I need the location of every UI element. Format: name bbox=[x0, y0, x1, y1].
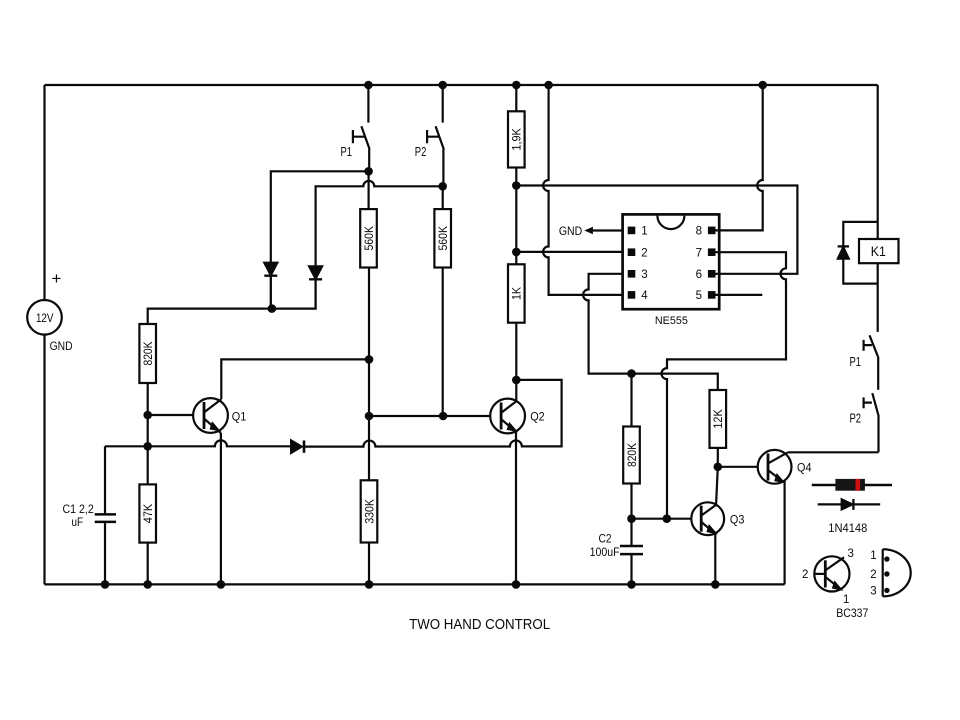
pin 3 pad bbox=[628, 270, 636, 278]
wire 330K bottom to ground rail bbox=[368, 543, 370, 585]
node 820K-Q1 base bbox=[143, 411, 152, 420]
svg-text:BC337: BC337 bbox=[836, 608, 868, 620]
wire relay diode branch bottom bbox=[843, 259, 877, 284]
wire Q3 base bbox=[632, 518, 692, 520]
resistor 12K bbox=[710, 390, 727, 448]
svg-text:1: 1 bbox=[641, 226, 647, 238]
node rail-pin4 bbox=[544, 81, 553, 90]
wire P2 node to diode D2 branch with hop over P1 vertical bbox=[316, 181, 443, 266]
node 12K-Q4 base bbox=[714, 463, 723, 472]
svg-text:C2: C2 bbox=[599, 533, 612, 545]
wire 1K top node to resistor bbox=[515, 252, 517, 264]
node 560K P2-Q2 base bbox=[439, 412, 448, 421]
diode D3 bbox=[291, 440, 302, 453]
resistor 820K (left) bbox=[139, 324, 156, 383]
svg-text:6: 6 bbox=[696, 269, 702, 281]
svg-text:12V: 12V bbox=[36, 313, 54, 325]
wire pin 2 to 1K top node bbox=[516, 251, 622, 253]
wire supply rail down to 1,9K bbox=[515, 85, 517, 111]
resistor 560K (P1) bbox=[360, 209, 377, 267]
wire relay diode branch top bbox=[843, 222, 877, 247]
svg-text:7: 7 bbox=[696, 247, 702, 259]
svg-text:Q1: Q1 bbox=[232, 409, 247, 423]
svg-text:820K: 820K bbox=[141, 342, 155, 366]
node rail-pin8 bbox=[758, 81, 767, 90]
svg-text:3: 3 bbox=[641, 269, 647, 281]
svg-text:GND: GND bbox=[50, 339, 73, 353]
wire pin 7 right down left and down to Q3 base node with hops bbox=[662, 252, 787, 519]
node ground-C2 bbox=[627, 580, 636, 589]
svg-text:820K: 820K bbox=[625, 443, 639, 467]
diode D4 freewheel bbox=[838, 245, 849, 247]
wire Q3 emitter to ground rail bbox=[714, 534, 716, 585]
svg-text:P1: P1 bbox=[850, 354, 862, 369]
battery 12V source bbox=[27, 300, 62, 335]
switch P2 arm bbox=[436, 126, 444, 186]
svg-text:C1 2,2: C1 2,2 bbox=[63, 504, 94, 516]
node pin7-Q3 base bbox=[663, 514, 672, 523]
svg-text:1K: 1K bbox=[510, 287, 524, 300]
svg-text:100uF: 100uF bbox=[590, 547, 620, 559]
svg-text:NE555: NE555 bbox=[655, 315, 688, 327]
wire top supply rail bbox=[45, 84, 878, 86]
node Q1 collector-560K bbox=[365, 355, 374, 364]
wire C1 node to diode D3 with hops over Q1 emitter and 330K line bbox=[105, 440, 291, 446]
wire bottom ground rail bbox=[45, 583, 785, 585]
wire 820K right bottom to Q3 base node bbox=[630, 484, 632, 519]
svg-text:+: + bbox=[52, 269, 62, 288]
wire 560K P2 bottom to Q2 base node bbox=[442, 268, 444, 417]
diode D1 bbox=[264, 263, 277, 276]
wire Q4 base bbox=[718, 466, 758, 468]
resistor 47K bbox=[139, 484, 156, 542]
wire P1 node to diode D1 branch bbox=[271, 171, 369, 262]
svg-text:Q4: Q4 bbox=[797, 460, 812, 474]
diode 1N4148 symbol bbox=[818, 499, 881, 510]
node ground-47K bbox=[143, 580, 152, 589]
svg-text:560K: 560K bbox=[436, 226, 450, 251]
svg-text:Q3: Q3 bbox=[730, 512, 745, 526]
node ground-Q1 emitter bbox=[217, 580, 226, 589]
pin 5 pad bbox=[708, 291, 716, 299]
resistor 330K bbox=[361, 480, 378, 542]
pin 4 pad bbox=[628, 291, 636, 299]
node ground-C1 bbox=[101, 580, 110, 589]
wire C1 bottom to ground rail bbox=[104, 522, 106, 585]
transistor Q4 bbox=[758, 450, 792, 484]
wire node down to 1K top node bbox=[515, 186, 517, 252]
wire Q4 emitter down to ground rail corner bbox=[783, 480, 785, 584]
node C1-47K bbox=[143, 442, 152, 451]
svg-text:P2: P2 bbox=[415, 144, 427, 159]
svg-text:4: 4 bbox=[641, 290, 648, 302]
svg-text:1N4148: 1N4148 bbox=[828, 523, 867, 535]
node ground-Q2 emitter bbox=[512, 580, 521, 589]
pin 2 pad bbox=[628, 248, 636, 256]
wire C2 top lead bbox=[630, 519, 632, 546]
switch P1 arm bbox=[361, 126, 369, 171]
wire 820K right top lead bbox=[630, 374, 632, 427]
wire 12K bottom to Q4 base node bbox=[717, 448, 719, 467]
wire pin 8 right and up to supply rail with hop bbox=[716, 85, 763, 230]
node 820K-C2-Q3 base bbox=[627, 514, 636, 523]
svg-text:8: 8 bbox=[696, 226, 702, 238]
svg-text:P1: P1 bbox=[341, 144, 353, 159]
svg-text:12K: 12K bbox=[711, 409, 725, 429]
node 820K right top bbox=[627, 369, 636, 378]
wire Q1 emitter down to ground rail bbox=[220, 433, 222, 585]
wire P1 node down to 560K bbox=[368, 171, 370, 209]
switch P1 top lead bbox=[367, 85, 369, 123]
node rail-P2 bbox=[438, 81, 447, 90]
wire Q1 base node down to 47K bbox=[147, 415, 149, 484]
switch P2 contact bar bbox=[427, 130, 439, 143]
switch P2 right contact bar bbox=[864, 397, 872, 408]
svg-text:K1: K1 bbox=[871, 244, 886, 260]
node rail-P1 bbox=[364, 81, 373, 90]
diode D2 bbox=[309, 266, 322, 279]
svg-text:3: 3 bbox=[870, 586, 876, 598]
diode 1N4148 package body bbox=[812, 479, 892, 491]
svg-text:2: 2 bbox=[802, 569, 808, 581]
wire P2 node down to 560K bbox=[442, 186, 444, 209]
wire Q2 base bbox=[369, 415, 490, 417]
svg-text:TWO HAND CONTROL: TWO HAND CONTROL bbox=[409, 616, 550, 633]
IC-END bbox=[101, 81, 767, 589]
op-amp U1 NE555 body bbox=[623, 214, 720, 309]
pin 6 pad bbox=[708, 270, 716, 278]
svg-text:2: 2 bbox=[870, 569, 876, 581]
wire pin 6 right up and left to 1,9K-1K node bbox=[516, 186, 797, 274]
package TO-92 outline bbox=[883, 549, 911, 596]
svg-text:3: 3 bbox=[848, 548, 854, 560]
wire 560K P1 bottom through collector node and base node to 330K bbox=[368, 268, 370, 481]
node 560K-330K-base bbox=[365, 412, 374, 421]
wire 1K bottom to Q2 collector node bbox=[515, 323, 517, 380]
svg-text:330K: 330K bbox=[362, 499, 376, 524]
wire diode D3 to Q2 collector loop with hops bbox=[304, 380, 562, 447]
svg-text:5: 5 bbox=[696, 290, 702, 302]
node Q2 collector bbox=[512, 376, 521, 385]
transistor Q3 bbox=[691, 502, 724, 535]
resistor 820K (right) bbox=[623, 427, 640, 484]
wire C2 bottom to ground rail bbox=[630, 554, 632, 584]
svg-text:P2: P2 bbox=[850, 411, 862, 426]
wire diode junction to 820K top bbox=[148, 309, 272, 324]
svg-text:uF: uF bbox=[72, 517, 84, 529]
wire pin 5 stub bbox=[716, 294, 763, 296]
switch P2 top lead bbox=[442, 85, 444, 123]
switch P2 right arm bbox=[872, 393, 878, 452]
wire pin 1 to GND arrow bbox=[592, 229, 623, 231]
svg-text:1: 1 bbox=[843, 594, 849, 606]
wire 47K bottom to ground rail bbox=[147, 543, 149, 585]
pin 8 pad bbox=[708, 227, 716, 235]
node ground-330K bbox=[365, 580, 374, 589]
wire 1,9K bottom to node bbox=[515, 168, 517, 186]
wire Q1 base bbox=[148, 414, 194, 416]
wire C1 branch from node down to capacitor bbox=[104, 446, 106, 514]
switch P1 right arm bbox=[870, 335, 879, 390]
node 1K-pin2 bbox=[512, 248, 521, 257]
resistor 1K bbox=[508, 264, 525, 322]
node rail-1,9K bbox=[512, 81, 521, 90]
capacitor C2 plates bbox=[620, 546, 643, 554]
switch P1 contact bar bbox=[353, 130, 365, 143]
wire main right vertical to relay and switches bbox=[877, 85, 879, 332]
wire left supply from 12V plus to rail bbox=[43, 85, 45, 300]
NE555 notch bbox=[657, 216, 684, 230]
wire pin 3 left down and right to 820K-12K rail bbox=[583, 274, 718, 390]
svg-text:560K: 560K bbox=[362, 226, 376, 251]
node ground-Q3 emitter bbox=[711, 580, 720, 589]
wire Q1 collector up and right to 560K node bbox=[221, 359, 369, 399]
svg-text:47K: 47K bbox=[141, 504, 155, 524]
pin 1 pad bbox=[628, 227, 636, 235]
svg-text:Q2: Q2 bbox=[530, 410, 545, 424]
wire 820K bottom to Q1 base node bbox=[147, 383, 149, 415]
svg-text:2: 2 bbox=[641, 247, 647, 259]
wire Q4 collector to right P2 bottom bbox=[788, 451, 879, 453]
pin 7 pad bbox=[708, 248, 716, 256]
relay K1 box bbox=[859, 239, 899, 263]
switch P1 right contact bar bbox=[864, 340, 872, 351]
transistor BC337 symbol bbox=[814, 556, 849, 591]
capacitor C1 plates bbox=[95, 514, 116, 522]
node D1-D2 junction bbox=[268, 304, 277, 313]
node P2 bottom bbox=[438, 182, 447, 191]
svg-text:GND: GND bbox=[559, 224, 583, 238]
GND arrow head bbox=[584, 227, 593, 234]
svg-text:1,9K: 1,9K bbox=[510, 128, 524, 150]
resistor 560K (P2) bbox=[434, 209, 451, 267]
transistor Q2 bbox=[490, 380, 525, 585]
transistor Q1 bbox=[193, 398, 228, 436]
wire Q3 collector to 12K bottom node bbox=[716, 467, 718, 507]
node 1,9K bottom bbox=[512, 181, 521, 190]
svg-text:1: 1 bbox=[870, 550, 876, 562]
TRANSISTORS-END bbox=[584, 214, 719, 309]
resistor 1,9K bbox=[508, 111, 525, 167]
wire supply rail to pin 4 with hops over two horizontal wires bbox=[543, 85, 623, 295]
node P1 bottom bbox=[364, 167, 373, 176]
wire left from 12V minus down to ground rail bbox=[43, 335, 45, 585]
